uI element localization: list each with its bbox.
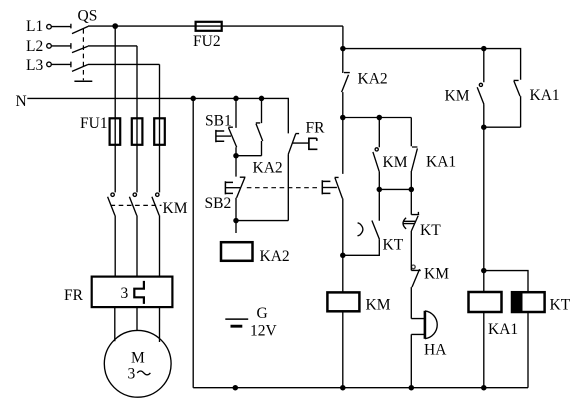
relay contact KA2 (NO, parallel with SB1) bbox=[253, 98, 283, 176]
terminal L3 bbox=[26, 57, 51, 74]
svg-text:KT: KT bbox=[550, 296, 571, 313]
svg-text:KM: KM bbox=[383, 154, 408, 171]
node mid rail left bbox=[340, 115, 346, 121]
svg-text:KM: KM bbox=[424, 266, 449, 283]
relay contact KM (NC) bbox=[411, 265, 449, 319]
wire node SB2/FR bbox=[236, 221, 288, 233]
thermal relay FR box bbox=[64, 277, 172, 308]
svg-text:12V: 12V bbox=[250, 323, 278, 340]
svg-text:L3: L3 bbox=[26, 57, 43, 74]
coil KT (time relay) bbox=[512, 292, 571, 388]
svg-text:KA1: KA1 bbox=[530, 87, 560, 104]
svg-text:L1: L1 bbox=[26, 18, 43, 35]
svg-text:KA2: KA2 bbox=[358, 70, 388, 87]
svg-text:FR: FR bbox=[306, 120, 326, 137]
pushbutton linked break contact (SB2 linked) bbox=[322, 118, 343, 256]
node aux pair left bbox=[377, 187, 383, 193]
svg-text:FU2: FU2 bbox=[193, 33, 221, 50]
svg-text:M: M bbox=[131, 349, 145, 366]
svg-text:KA1: KA1 bbox=[488, 321, 518, 338]
node top rail KM branch bbox=[481, 46, 487, 52]
wire mid rail bbox=[343, 117, 412, 119]
wire bottom rail bbox=[193, 387, 528, 389]
node on N at SB1 bbox=[233, 96, 239, 102]
svg-text:KA1: KA1 bbox=[426, 154, 456, 171]
relay contact KA1 (aux NO) bbox=[411, 118, 456, 190]
svg-text:KM: KM bbox=[445, 87, 470, 104]
svg-text:N: N bbox=[16, 93, 27, 110]
wire L1 top line to control corner bbox=[88, 25, 343, 27]
svg-text:3: 3 bbox=[121, 285, 129, 302]
fuse FU1 (three) bbox=[80, 115, 165, 145]
pushbutton SB1 bbox=[205, 98, 237, 155]
terminal L2 bbox=[26, 38, 51, 55]
terminal L1 bbox=[26, 18, 51, 35]
node aux pair right bbox=[409, 187, 415, 193]
wire join aux pair bbox=[379, 188, 411, 190]
node mid rail KM aux bbox=[377, 115, 383, 121]
wire phase drops to KM contacts bbox=[115, 26, 159, 192]
pushbutton SB2 bbox=[205, 156, 246, 221]
svg-text:KA2: KA2 bbox=[260, 248, 290, 265]
wire right column down bbox=[483, 127, 485, 292]
node bottom rail 1 bbox=[233, 385, 239, 391]
node KT output bbox=[340, 253, 346, 258]
svg-text:HA: HA bbox=[424, 342, 447, 359]
wire join top-right pair bbox=[484, 126, 521, 128]
svg-text:3: 3 bbox=[128, 365, 136, 382]
svg-text:KM: KM bbox=[366, 296, 391, 313]
wire join SB1/KA2 bbox=[236, 155, 262, 157]
node bottom rail HA bbox=[409, 385, 415, 391]
svg-text:KA2: KA2 bbox=[253, 159, 283, 176]
node bottom rail KA1 coil bbox=[481, 385, 487, 391]
node on N at KA2 branch bbox=[259, 96, 265, 102]
svg-text:SB2: SB2 bbox=[205, 195, 232, 212]
wire L2 to drop bbox=[88, 45, 137, 47]
svg-text:QS: QS bbox=[78, 7, 98, 24]
fuse FU2 bbox=[193, 22, 222, 50]
coil KM bbox=[327, 255, 390, 387]
node bottom rail KM coil bbox=[340, 385, 346, 391]
node top rail left bbox=[340, 46, 346, 52]
motor M bbox=[104, 330, 171, 397]
switch QS bbox=[51, 7, 97, 81]
relay contact KM (top right NO) bbox=[445, 49, 484, 128]
node on N at left rail bbox=[190, 96, 196, 102]
timer contact KT (NC delayed open) bbox=[403, 189, 441, 270]
N line and label bbox=[16, 93, 289, 133]
node join SB1/KA2 bbox=[233, 153, 239, 159]
relay contact KA2 (top) bbox=[342, 49, 388, 118]
node top-right pair bbox=[481, 124, 487, 130]
svg-text:SB1: SB1 bbox=[205, 112, 232, 129]
relay contact KA1 (top right NO) bbox=[514, 80, 560, 127]
svg-text:L2: L2 bbox=[26, 38, 43, 55]
coil KA1 bbox=[469, 292, 519, 388]
relay contact FR (NC in control) bbox=[288, 120, 325, 221]
relay contact KM (aux NO) bbox=[373, 118, 408, 190]
svg-text:KT: KT bbox=[420, 222, 441, 239]
wire top feeder down and rail bbox=[343, 26, 521, 80]
node junction L1 bbox=[112, 23, 118, 29]
contactor KM main contacts bbox=[108, 193, 188, 277]
coil KA2 bbox=[221, 242, 290, 265]
svg-text:KT: KT bbox=[383, 237, 404, 254]
svg-text:FR: FR bbox=[64, 287, 84, 304]
wire L3 to drop bbox=[88, 63, 160, 65]
buzzer HA bbox=[411, 311, 447, 388]
node SB2/FR bbox=[233, 218, 239, 224]
svg-text:G: G bbox=[257, 305, 268, 322]
svg-text:FU1: FU1 bbox=[80, 115, 108, 132]
wire dashed mechanical link SB2 bbox=[247, 187, 319, 189]
wire branch to KT coil bbox=[484, 271, 528, 293]
battery G 12V bbox=[225, 305, 277, 340]
wires FR box to motor bbox=[115, 307, 160, 342]
svg-text:KM: KM bbox=[163, 200, 188, 217]
wire left control rail bbox=[192, 98, 194, 387]
timer contact KT (NO delayed close) bbox=[343, 189, 404, 255]
node KA1/KT branch bbox=[481, 268, 487, 274]
